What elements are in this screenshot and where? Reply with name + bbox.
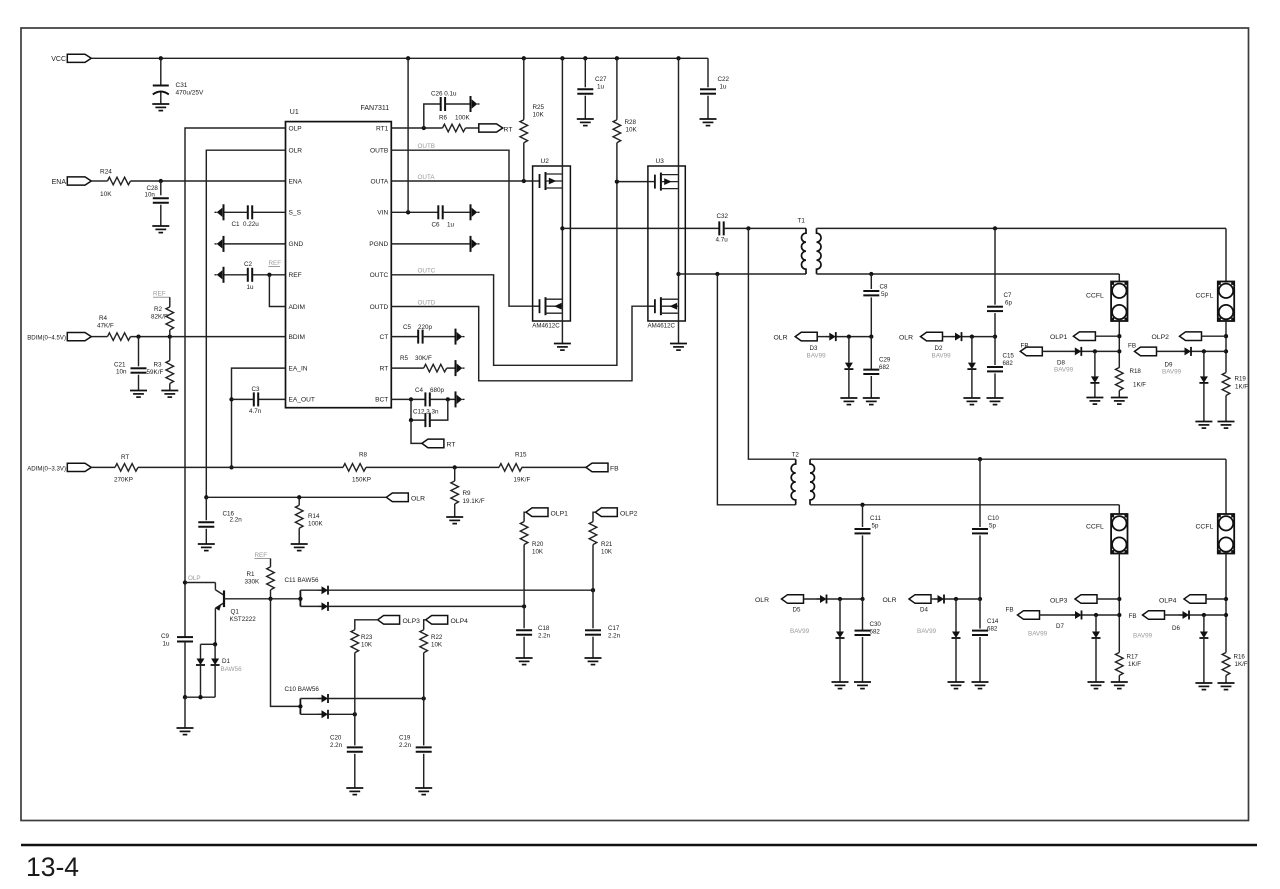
wire PGND xyxy=(391,243,470,245)
svg-text:10n: 10n xyxy=(116,369,127,376)
svg-text:R2: R2 xyxy=(154,306,163,313)
transistor U3 lower MOSFET xyxy=(648,297,678,315)
svg-text:OUTC: OUTC xyxy=(370,272,389,279)
svg-text:VCC: VCC xyxy=(51,56,66,63)
capacitor C6 xyxy=(438,205,442,219)
svg-text:2.2n: 2.2n xyxy=(538,633,551,640)
svg-text:D2: D2 xyxy=(935,345,943,352)
svg-text:2.2n: 2.2n xyxy=(608,633,621,640)
svg-text:OLR: OLR xyxy=(774,335,788,342)
svg-text:CCFL: CCFL xyxy=(1086,524,1104,531)
svg-text:BDIM: BDIM xyxy=(289,334,305,341)
wire OUTA to U2 upper gate xyxy=(391,180,532,182)
svg-text:FB: FB xyxy=(1129,613,1137,620)
svg-text:AM4612C: AM4612C xyxy=(532,323,560,330)
wire OLP1 to CCFL1 xyxy=(1095,335,1119,337)
wire T2 secondary top xyxy=(810,458,1226,460)
ground below R17 xyxy=(1111,682,1128,689)
svg-text:0.22u: 0.22u xyxy=(243,221,259,228)
svg-text:D7: D7 xyxy=(1056,623,1064,630)
capacitor C1 xyxy=(253,211,286,213)
svg-text:C11: C11 xyxy=(870,515,881,522)
svg-text:OLR: OLR xyxy=(899,335,913,342)
capacitor C14 xyxy=(979,599,981,629)
svg-text:T2: T2 xyxy=(792,452,800,459)
ground below C29 xyxy=(863,398,880,405)
wire ADIM RT row xyxy=(92,466,116,468)
capacitor C17 xyxy=(592,590,594,628)
diode D7 shunt xyxy=(1095,615,1097,632)
svg-text:R1: R1 xyxy=(247,571,256,578)
wire OLP4 to CCFL4 xyxy=(1206,598,1226,600)
resistor R22 xyxy=(424,620,426,630)
diode D8 xyxy=(1071,347,1081,356)
svg-text:OLR: OLR xyxy=(289,148,303,155)
resistor R25 xyxy=(523,58,525,119)
resistor R16 xyxy=(1222,653,1230,676)
wire C11 top row xyxy=(328,589,593,591)
svg-text:OLP4: OLP4 xyxy=(1159,598,1177,605)
capacitor C28 xyxy=(160,181,162,195)
svg-text:270KP: 270KP xyxy=(114,477,133,484)
ground below U2 xyxy=(554,344,571,351)
svg-text:C11 BAW56: C11 BAW56 xyxy=(285,577,319,584)
capacitor C22 xyxy=(707,58,709,87)
wire OLR row 3 xyxy=(804,598,821,600)
ground below R16 xyxy=(1218,683,1235,690)
ground at R5 xyxy=(456,360,465,376)
svg-text:10K: 10K xyxy=(100,191,112,198)
ground at C26 xyxy=(471,96,480,112)
svg-text:C10: C10 xyxy=(988,515,1000,522)
port RT lower xyxy=(422,439,444,448)
svg-text:OLP2: OLP2 xyxy=(620,510,638,517)
svg-text:30K/F: 30K/F xyxy=(415,355,432,362)
svg-text:19.1K/F: 19.1K/F xyxy=(463,498,485,505)
svg-text:C1: C1 xyxy=(232,221,241,228)
ground below R14 xyxy=(291,544,308,551)
svg-text:BCT: BCT xyxy=(375,397,388,404)
wire FB row 1 xyxy=(1042,350,1075,352)
svg-text:R3: R3 xyxy=(154,362,163,369)
transistor U2 lower MOSFET xyxy=(533,297,563,315)
svg-text:R14: R14 xyxy=(308,513,320,520)
svg-text:RT: RT xyxy=(380,365,389,372)
capacitor C12 parallel loop xyxy=(411,399,425,420)
svg-text:1u: 1u xyxy=(163,641,171,648)
transistor Q1 KST2222 xyxy=(185,582,215,584)
svg-text:R19: R19 xyxy=(1235,376,1247,383)
ground below C22 xyxy=(700,119,717,126)
svg-text:C6: C6 xyxy=(432,222,441,229)
wire U3 output xyxy=(679,273,807,275)
svg-text:VIN: VIN xyxy=(377,210,388,217)
svg-text:C19: C19 xyxy=(399,735,411,742)
wire C10 bottom row xyxy=(328,713,355,715)
svg-text:1K/F: 1K/F xyxy=(1235,661,1248,668)
ground below C9 D1 xyxy=(177,728,194,735)
svg-text:C3: C3 xyxy=(252,386,261,393)
ground below C18 xyxy=(516,658,533,665)
wire T2 secondary top to CCFL4 xyxy=(1225,459,1227,514)
svg-text:1u: 1u xyxy=(720,84,728,91)
wire VCC rail xyxy=(92,57,709,59)
svg-text:1u: 1u xyxy=(447,222,455,229)
diode D3 xyxy=(826,332,836,341)
capacitor C13 5p xyxy=(862,505,864,527)
svg-text:10K: 10K xyxy=(533,112,545,119)
svg-text:R28: R28 xyxy=(625,119,637,126)
svg-text:U1: U1 xyxy=(290,109,299,116)
wire U3 drain-source rail xyxy=(678,58,680,343)
ground below C17 xyxy=(585,658,602,665)
ground below D4 shunt xyxy=(948,682,965,689)
ground below C14 xyxy=(972,682,989,689)
transistor U2 upper MOSFET xyxy=(533,172,563,190)
wire RT1 xyxy=(391,127,442,129)
wire T1 secondary top to CCFL2 xyxy=(1225,228,1227,281)
svg-text:FB: FB xyxy=(1128,343,1136,350)
capacitor C2 xyxy=(253,274,286,276)
svg-text:6p: 6p xyxy=(1005,300,1012,307)
svg-text:682: 682 xyxy=(879,364,890,371)
capacitor C7 xyxy=(994,228,996,304)
capacitor C5 xyxy=(391,336,418,338)
port FB xyxy=(586,463,608,472)
wire OLR row 1 xyxy=(817,336,829,338)
transformer T1 secondary winding xyxy=(817,228,822,274)
port OLP2 lower xyxy=(595,508,617,517)
svg-text:R21: R21 xyxy=(601,541,613,548)
svg-text:330K: 330K xyxy=(245,579,261,586)
wire to ground xyxy=(184,697,186,727)
capacitor C32 xyxy=(719,221,723,235)
capacitor C9 xyxy=(177,637,193,641)
svg-text:100K: 100K xyxy=(455,115,471,122)
capacitor C8 xyxy=(870,274,872,289)
wire OLP3 to CCFL3 xyxy=(1097,598,1119,600)
wire FB row 2 xyxy=(1157,350,1185,352)
svg-text:S_S: S_S xyxy=(289,210,302,217)
svg-text:C17: C17 xyxy=(608,625,620,632)
ground at C4 xyxy=(456,391,465,407)
resistor R5 xyxy=(391,367,423,369)
svg-text:ADIM: ADIM xyxy=(289,304,305,311)
svg-text:R8: R8 xyxy=(359,452,368,459)
capacitor C16 xyxy=(205,497,207,520)
diode D4 shunt xyxy=(955,599,957,632)
svg-text:D4: D4 xyxy=(920,607,928,614)
svg-text:R23: R23 xyxy=(361,634,373,641)
ground below D8 shunt xyxy=(1086,398,1103,405)
svg-text:BAV99: BAV99 xyxy=(1133,633,1153,640)
svg-text:1u: 1u xyxy=(597,84,605,91)
svg-text:682: 682 xyxy=(870,629,881,636)
resistor R6 xyxy=(443,124,466,132)
diode D1 pair BAW56 xyxy=(201,643,216,645)
ground at REF xyxy=(215,267,224,283)
svg-text:BDIM(0~4.5V): BDIM(0~4.5V) xyxy=(27,335,66,342)
svg-text:REF: REF xyxy=(153,291,166,298)
capacitor C21 xyxy=(138,337,140,367)
svg-text:13-4: 13-4 xyxy=(26,852,79,882)
wire CCFL2 bottom pin xyxy=(1225,322,1227,373)
svg-text:10K: 10K xyxy=(601,549,613,556)
svg-text:OLP4: OLP4 xyxy=(451,618,469,625)
ground below C19 xyxy=(415,788,432,795)
diode D9 shunt xyxy=(1203,351,1205,376)
svg-text:U2: U2 xyxy=(541,158,550,165)
svg-text:R5: R5 xyxy=(400,355,409,362)
wire REF to ADIM xyxy=(269,275,285,307)
svg-text:5p: 5p xyxy=(872,523,879,530)
wire OLR row 4 xyxy=(931,598,938,600)
wire C11 bottom row xyxy=(328,605,524,607)
ground below C16 xyxy=(198,544,215,551)
svg-text:680p: 680p xyxy=(430,387,445,394)
svg-text:EA_OUT: EA_OUT xyxy=(289,397,315,404)
svg-text:REF: REF xyxy=(269,260,282,267)
svg-text:OUTD: OUTD xyxy=(370,304,389,311)
svg-text:4.7u: 4.7u xyxy=(716,237,729,244)
svg-text:BAW56: BAW56 xyxy=(221,666,243,673)
ground at C6 xyxy=(471,204,480,220)
svg-text:BAV99: BAV99 xyxy=(932,353,952,360)
svg-text:OLP3: OLP3 xyxy=(403,618,421,625)
ground below C30 xyxy=(854,682,871,689)
capacitor C18 xyxy=(523,606,525,628)
port OLP3 left xyxy=(378,616,400,625)
svg-text:5p: 5p xyxy=(881,291,888,298)
svg-text:1K/F: 1K/F xyxy=(1133,382,1146,389)
wire T1 secondary bottom to CCFL1 xyxy=(1118,274,1120,282)
ground below D7 shunt xyxy=(1088,682,1105,689)
svg-text:220p: 220p xyxy=(418,324,433,331)
wire node A to T2 xyxy=(748,228,795,459)
connector CCFL lamp 4 xyxy=(1218,514,1234,554)
svg-text:C21: C21 xyxy=(114,362,126,369)
svg-text:OLR: OLR xyxy=(883,597,897,604)
svg-text:2.2n: 2.2n xyxy=(399,742,412,749)
wire BDIM xyxy=(92,336,108,338)
svg-text:OLR: OLR xyxy=(411,495,425,502)
svg-text:OLP: OLP xyxy=(188,575,201,582)
svg-text:OUTB: OUTB xyxy=(370,148,389,155)
wire EA_IN xyxy=(232,368,286,467)
svg-text:ENA: ENA xyxy=(52,179,67,186)
svg-text:D1: D1 xyxy=(222,658,231,665)
transformer T2 primary winding xyxy=(791,459,796,505)
capacitor C20 xyxy=(354,714,356,745)
svg-text:10K: 10K xyxy=(431,642,443,649)
svg-text:47K/F: 47K/F xyxy=(97,323,114,330)
svg-text:FB: FB xyxy=(1006,607,1014,614)
wire T1 secondary top xyxy=(817,227,1227,229)
wire U2 output xyxy=(562,227,719,229)
ground at C5 xyxy=(456,329,465,345)
svg-text:OLP1: OLP1 xyxy=(1050,334,1068,341)
svg-text:682: 682 xyxy=(1003,360,1014,367)
svg-text:C15: C15 xyxy=(1003,353,1015,360)
title rule xyxy=(21,844,1257,846)
wire OLR row left xyxy=(206,496,386,498)
ground below C31 xyxy=(152,104,169,111)
transformer T1 primary winding xyxy=(802,228,807,274)
wire R1 node to C11 xyxy=(271,598,301,600)
svg-text:R9: R9 xyxy=(463,490,472,497)
svg-text:5p: 5p xyxy=(989,523,996,530)
svg-text:FAN7311: FAN7311 xyxy=(361,105,390,112)
svg-text:1u: 1u xyxy=(247,284,255,291)
svg-text:OUTD: OUTD xyxy=(418,299,436,306)
svg-text:C4: C4 xyxy=(415,387,424,394)
svg-text:R18: R18 xyxy=(1130,368,1142,375)
svg-text:BAV99: BAV99 xyxy=(917,628,937,635)
svg-text:682: 682 xyxy=(987,626,998,633)
resistor R18 xyxy=(1118,367,1120,369)
svg-text:R25: R25 xyxy=(533,104,545,111)
capacitor C15 xyxy=(994,337,996,365)
svg-text:R22: R22 xyxy=(431,634,443,641)
svg-text:OLP: OLP xyxy=(289,125,303,132)
svg-text:OLR: OLR xyxy=(755,597,769,604)
ground below C28 xyxy=(152,226,169,233)
svg-text:REF: REF xyxy=(255,552,268,559)
wire OUTC to U3 upper gate xyxy=(391,182,648,366)
diode D9 xyxy=(1181,347,1191,356)
svg-text:CCFL: CCFL xyxy=(1196,293,1214,300)
resistor R9 xyxy=(454,467,456,481)
svg-text:CT: CT xyxy=(380,334,389,341)
ground at GND pin xyxy=(215,236,224,252)
svg-text:GND: GND xyxy=(289,241,304,248)
svg-text:C14: C14 xyxy=(987,618,999,625)
wire U2 drain-source rail xyxy=(561,58,563,343)
svg-text:10K: 10K xyxy=(361,642,373,649)
svg-text:C18: C18 xyxy=(538,625,550,632)
svg-text:D9: D9 xyxy=(1165,362,1173,369)
wire OUTD to U3 lower gate xyxy=(391,306,648,381)
wire to RT port lower xyxy=(411,420,422,443)
svg-text:470u/25V: 470u/25V xyxy=(176,90,204,97)
svg-text:R20: R20 xyxy=(532,541,544,548)
wire OLP2 to CCFL2 xyxy=(1202,335,1227,337)
svg-text:RT: RT xyxy=(447,442,456,449)
wire node A xyxy=(724,227,806,229)
capacitor C4 xyxy=(391,398,425,400)
resistor R20 xyxy=(524,512,526,521)
svg-text:D6: D6 xyxy=(1172,625,1180,632)
diode D4 xyxy=(934,595,944,604)
ground below C21 xyxy=(130,391,147,398)
svg-text:4.7n: 4.7n xyxy=(249,408,262,415)
resistor RT xyxy=(115,464,138,472)
ground below C15 xyxy=(987,398,1004,405)
port OLP1 lower xyxy=(526,508,548,517)
capacitor C10 5p xyxy=(979,459,981,527)
svg-text:CCFL: CCFL xyxy=(1196,524,1214,531)
svg-text:FB: FB xyxy=(610,466,619,473)
wire CCFL4 bottom pin xyxy=(1225,554,1227,653)
svg-text:RT1: RT1 xyxy=(376,125,389,132)
svg-text:C7: C7 xyxy=(1004,292,1012,299)
svg-text:RT: RT xyxy=(121,454,129,461)
ground at PGND xyxy=(471,236,480,252)
wire node B to T2 xyxy=(717,274,795,505)
svg-text:T1: T1 xyxy=(798,218,806,225)
ground below D3 shunt xyxy=(840,398,857,405)
resistor R24 xyxy=(108,177,131,185)
svg-text:CCFL: CCFL xyxy=(1086,293,1104,300)
ground below U3 xyxy=(670,344,687,351)
ground below R9 xyxy=(446,517,463,524)
svg-text:D3: D3 xyxy=(810,345,818,352)
svg-text:OUTC: OUTC xyxy=(418,268,436,275)
resistor R28 xyxy=(616,58,618,119)
wire Q1 node down to C10 xyxy=(271,599,301,707)
svg-text:RT: RT xyxy=(504,127,513,134)
capacitor C27 xyxy=(584,58,586,87)
capacitor C26 xyxy=(424,104,441,128)
wire T2 secondary bottom to CCFL3 xyxy=(1118,505,1120,514)
svg-text:C2: C2 xyxy=(244,261,253,268)
capacitor C30 xyxy=(862,599,864,631)
svg-text:R15: R15 xyxy=(515,452,527,459)
wire ENA xyxy=(92,180,108,182)
ground at S_S xyxy=(215,204,224,220)
transistor U3 AM4612C box xyxy=(648,166,685,321)
svg-text:OLP1: OLP1 xyxy=(551,510,569,517)
ground below R19 xyxy=(1218,422,1235,429)
svg-text:10n: 10n xyxy=(145,192,156,199)
ground below D6 shunt xyxy=(1195,683,1212,690)
port OLP4 left xyxy=(426,616,448,625)
svg-text:ENA: ENA xyxy=(289,178,303,185)
diode D5 shunt xyxy=(839,599,841,632)
port OLR left xyxy=(386,493,408,502)
wire FB row 3 xyxy=(1040,614,1076,616)
svg-text:AM4612C: AM4612C xyxy=(648,323,676,330)
port RT1 out xyxy=(479,124,503,132)
op-amp U1 FAN7311 controller box xyxy=(286,122,392,408)
svg-text:150KP: 150KP xyxy=(352,477,371,484)
svg-text:PGND: PGND xyxy=(369,241,388,248)
ground below C27 xyxy=(577,119,594,126)
svg-text:BAV99: BAV99 xyxy=(1028,631,1048,638)
resistor R2 xyxy=(169,297,171,307)
resistor R23 xyxy=(355,620,378,630)
wire FB row 4 xyxy=(1165,614,1183,616)
capacitor C3 xyxy=(258,398,285,400)
svg-text:OLP2: OLP2 xyxy=(1152,334,1170,341)
diode D8 shunt xyxy=(1094,351,1096,376)
svg-text:1K/F: 1K/F xyxy=(1235,384,1248,391)
svg-text:C10 BAW56: C10 BAW56 xyxy=(285,686,320,693)
svg-text:R17: R17 xyxy=(1127,654,1139,661)
connector CCFL lamp 1 xyxy=(1111,282,1127,322)
capacitor C29 xyxy=(870,337,872,370)
capacitor C19 xyxy=(423,699,425,746)
svg-text:10K: 10K xyxy=(626,127,638,134)
svg-text:R4: R4 xyxy=(99,315,108,322)
svg-text:82K/F: 82K/F xyxy=(151,314,168,321)
svg-text:BAV99: BAV99 xyxy=(1162,369,1182,376)
svg-text:D8: D8 xyxy=(1057,360,1065,367)
ground below D2 shunt xyxy=(963,398,980,405)
svg-text:C20: C20 xyxy=(330,735,342,742)
ground below R3 xyxy=(161,391,178,398)
transistor U2 AM4612C box xyxy=(533,166,571,321)
